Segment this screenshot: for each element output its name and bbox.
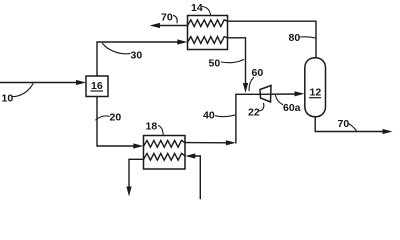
exchanger 18 top coil — [144, 140, 186, 147]
leader for 50 — [222, 60, 244, 63]
arrowhead into exchanger 18 — [133, 143, 143, 148]
svg-text:20: 20 — [110, 112, 122, 124]
wire stream 70 out of vessel 12 bottom — [315, 117, 383, 132]
svg-text:40: 40 — [203, 110, 215, 122]
wire bottom-left outlet of exchanger 18 — [129, 159, 144, 187]
arrowhead into vessel 12 — [295, 91, 305, 96]
svg-text:50: 50 — [209, 57, 221, 69]
leader for 70 top — [174, 16, 178, 23]
wire stream 80 (exchanger 14 to vessel 12) — [228, 21, 317, 57]
arrowhead into exchanger 14 — [177, 39, 187, 44]
compressor 22 — [260, 86, 271, 103]
unit 16 box — [86, 76, 108, 97]
leader for 60a — [276, 96, 283, 105]
arrowhead into exchanger 18 right side — [185, 153, 195, 158]
wire stream 10 feed line — [0, 82, 77, 84]
svg-text:80: 80 — [289, 32, 301, 44]
wire 40 riser — [236, 94, 260, 143]
svg-text:14: 14 — [191, 2, 203, 14]
leader for 10 — [13, 84, 33, 97]
wire stream 50/60 (exchanger 14 down to compressor junction) — [228, 38, 246, 84]
svg-text:70: 70 — [338, 118, 350, 130]
wire stream 20 (16 down to exchanger 18) — [97, 97, 135, 147]
heat exchanger 18 box — [144, 136, 186, 170]
leader for 80 — [300, 37, 316, 38]
leader for 40 — [216, 115, 235, 117]
arrowhead 60 pointing down — [243, 83, 248, 93]
leader for 70 bottom — [349, 124, 357, 132]
wire stream 30 (16 to exchanger 14) — [97, 42, 179, 76]
svg-text:12: 12 — [310, 87, 322, 99]
arrowhead 70 out right — [383, 129, 393, 134]
arrowhead 70 pointing left — [150, 23, 161, 28]
separator vessel 12 capsule — [305, 58, 326, 117]
arrowhead 40 pointing right at corner — [226, 140, 236, 145]
wire bottom-right inlet of exchanger 18 — [195, 156, 200, 199]
svg-text:30: 30 — [131, 50, 143, 62]
leader for 30 — [103, 44, 131, 54]
svg-text:16: 16 — [91, 80, 103, 92]
leader for 60 — [249, 78, 254, 91]
svg-text:70: 70 — [161, 12, 173, 24]
svg-text:18: 18 — [146, 121, 158, 133]
arrowhead down outlet — [126, 187, 131, 197]
exchanger 18 bottom coil — [144, 153, 186, 160]
svg-text:10: 10 — [2, 93, 14, 105]
wire stream 70 out of exchanger 14 — [159, 25, 188, 27]
leader for 22 — [260, 103, 264, 110]
leader for 20 — [96, 116, 109, 120]
heat exchanger 14 box — [188, 16, 228, 50]
svg-text:60a: 60a — [283, 102, 301, 114]
exchanger 14 bottom coil — [188, 37, 228, 44]
svg-text:22: 22 — [248, 107, 260, 119]
wire stream 40 (exchanger 18 to compressor junction) — [185, 142, 227, 144]
leader for 18 — [159, 126, 164, 136]
arrowhead into unit 16 — [76, 80, 86, 85]
wire stream 60a (compressor to vessel 12) — [260, 93, 296, 95]
exchanger 14 top coil — [188, 20, 228, 27]
leader for 14 — [203, 7, 211, 16]
